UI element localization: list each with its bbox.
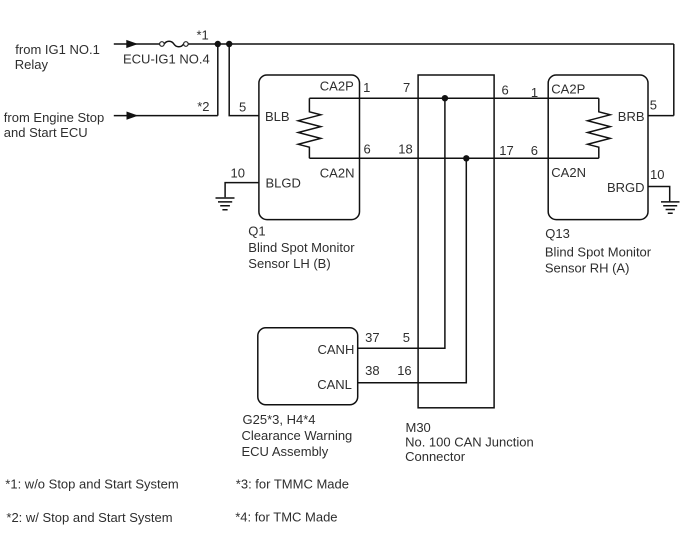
svg-text:*1: *1 [197,28,209,43]
svg-text:Q1: Q1 [248,224,265,239]
svg-text:10: 10 [231,165,245,180]
svg-text:Blind Spot Monitor: Blind Spot Monitor [545,244,652,259]
svg-text:*4: for TMC Made: *4: for TMC Made [235,510,337,525]
svg-text:CANL: CANL [317,377,352,392]
svg-text:*3: for TMMC Made: *3: for TMMC Made [236,476,349,491]
svg-text:Sensor LH (B): Sensor LH (B) [248,256,330,271]
svg-text:Q13: Q13 [545,226,570,241]
svg-text:*2: w/ Stop and Start System: *2: w/ Stop and Start System [6,510,172,525]
svg-text:ECU Assembly: ECU Assembly [242,444,329,459]
svg-text:BRGD: BRGD [607,180,645,195]
svg-text:No. 100 CAN Junction: No. 100 CAN Junction [405,435,534,450]
svg-text:5: 5 [650,97,657,112]
svg-text:Sensor RH (A): Sensor RH (A) [545,261,630,276]
svg-text:BLB: BLB [265,109,290,124]
svg-text:BRB: BRB [618,109,645,124]
svg-text:Connector: Connector [405,449,466,464]
svg-text:10: 10 [650,167,664,182]
svg-text:6: 6 [502,83,509,98]
svg-text:5: 5 [403,330,410,345]
svg-text:6: 6 [364,141,371,156]
svg-text:from Engine Stop: from Engine Stop [4,110,104,125]
svg-text:from IG1 NO.1: from IG1 NO.1 [15,42,100,57]
svg-text:CA2P: CA2P [320,78,354,93]
svg-text:CA2P: CA2P [551,81,585,96]
svg-text:7: 7 [403,80,410,95]
svg-text:1: 1 [363,80,370,95]
svg-text:CANH: CANH [318,342,355,357]
svg-text:37: 37 [365,330,379,345]
svg-text:16: 16 [397,363,411,378]
svg-text:*1: w/o Stop and Start System: *1: w/o Stop and Start System [5,477,178,492]
svg-text:M30: M30 [406,420,431,435]
svg-text:Clearance Warning: Clearance Warning [242,428,353,443]
svg-text:1: 1 [531,85,538,100]
svg-text:CA2N: CA2N [551,165,586,180]
svg-text:18: 18 [398,141,412,156]
svg-text:6: 6 [531,143,538,158]
svg-text:BLGD: BLGD [266,175,301,190]
svg-text:G25*3, H4*4: G25*3, H4*4 [243,412,316,427]
svg-text:17: 17 [499,143,513,158]
svg-text:Relay: Relay [15,57,49,72]
svg-text:CA2N: CA2N [320,166,355,181]
svg-text:5: 5 [239,99,246,114]
svg-text:and Start ECU: and Start ECU [4,125,88,140]
svg-text:ECU-IG1 NO.4: ECU-IG1 NO.4 [123,52,210,67]
svg-text:38: 38 [365,363,379,378]
svg-text:*2: *2 [197,99,209,114]
svg-text:Blind Spot Monitor: Blind Spot Monitor [248,240,355,255]
